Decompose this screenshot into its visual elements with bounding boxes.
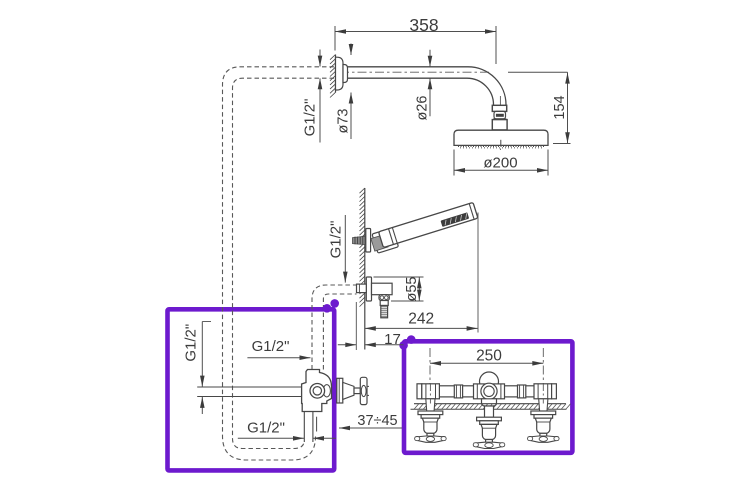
svg-text:358: 358	[409, 15, 438, 35]
svg-text:17: 17	[384, 331, 401, 348]
svg-text:ø73: ø73	[336, 109, 352, 134]
svg-text:G1/2": G1/2"	[302, 99, 319, 137]
svg-text:242: 242	[408, 311, 434, 328]
svg-text:G1/2": G1/2"	[247, 420, 285, 437]
svg-text:ø26: ø26	[415, 96, 431, 121]
svg-text:G1/2": G1/2"	[327, 221, 344, 259]
svg-text:G1/2": G1/2"	[183, 324, 200, 362]
svg-text:250: 250	[476, 347, 502, 364]
svg-text:ø200: ø200	[483, 155, 517, 172]
svg-text:37÷45: 37÷45	[357, 413, 397, 429]
svg-text:ø55: ø55	[404, 277, 420, 302]
svg-text:154: 154	[552, 95, 568, 119]
svg-text:G1/2": G1/2"	[252, 338, 290, 355]
